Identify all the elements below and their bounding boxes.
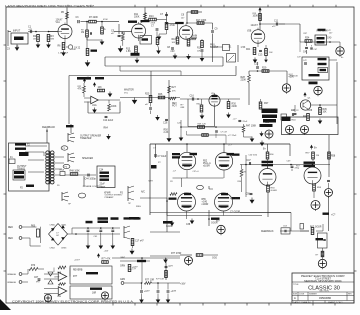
label V4 bbox=[172, 153, 197, 159]
svg-text:C7?: C7? bbox=[169, 266, 174, 268]
fx loop box bbox=[181, 99, 215, 127]
svg-text:C? n47: C? n47 bbox=[221, 132, 228, 134]
plug box P2 bbox=[9, 143, 50, 191]
rca jack bbox=[60, 169, 66, 176]
B+ node C bbox=[282, 71, 294, 94]
EL84 V6 bbox=[178, 193, 196, 211]
cathode chain x87 bbox=[72, 38, 98, 56]
supply blob C bbox=[260, 124, 273, 127]
feedback net label bbox=[42, 126, 56, 143]
supply arrow Q1 bbox=[303, 92, 306, 97]
B+ node G bbox=[217, 225, 225, 235]
+16 label bbox=[180, 284, 186, 286]
reverb fs jack bbox=[124, 226, 130, 239]
resistor R31 bbox=[197, 99, 205, 119]
svg-text:N/C: N/C bbox=[141, 192, 145, 194]
svg-text:ORANGE: ORANGE bbox=[7, 281, 17, 284]
cathode V1B bbox=[139, 36, 152, 45]
wire right col x300 bbox=[299, 24, 301, 42]
heater wire left bbox=[120, 260, 150, 262]
svg-text:1.5K 22uF: 1.5K 22uF bbox=[58, 52, 69, 54]
supply arrow pi bbox=[310, 145, 318, 150]
right chain res bbox=[300, 227, 323, 235]
effects row wire bbox=[120, 97, 180, 99]
title block bbox=[292, 273, 354, 304]
wire V3B feed bbox=[312, 164, 314, 167]
footswitch box S1 bbox=[227, 47, 236, 63]
svg-text:WHT: WHT bbox=[121, 257, 126, 259]
svg-text:SECTION: SECTION bbox=[319, 290, 329, 292]
wire reverb out bbox=[109, 258, 181, 262]
wire to V2A bbox=[186, 22, 212, 24]
bridge rectifier CR60-63 bbox=[49, 224, 68, 250]
ground hc3 bbox=[166, 298, 171, 304]
svg-text:+C? 22uF: +C? 22uF bbox=[230, 198, 241, 200]
cap C40 bbox=[303, 42, 308, 54]
V3A cathode bbox=[267, 185, 277, 217]
resistor R25 bbox=[145, 94, 152, 103]
ground U1A bbox=[108, 92, 113, 98]
scan corner artifact bbox=[0, 299, 11, 310]
wire input row bbox=[28, 31, 62, 33]
resistor R28 220K bbox=[241, 71, 251, 105]
resistor R3 bbox=[47, 31, 54, 42]
svg-text:A: A bbox=[294, 296, 296, 300]
cap C50 bbox=[246, 193, 253, 195]
wire second row bbox=[187, 131, 238, 144]
svg-text:16R: 16R bbox=[92, 293, 97, 295]
arrow into heater bbox=[129, 249, 134, 255]
wire tone run bbox=[166, 23, 180, 25]
svg-text:47K: 47K bbox=[78, 89, 83, 91]
op-amp U1A bbox=[84, 96, 98, 107]
svg-text:FEEDBACK: FEEDBACK bbox=[261, 230, 274, 233]
wire mid reverb bbox=[97, 257, 180, 259]
svg-text:GRN: GRN bbox=[120, 266, 125, 268]
ground hc1 bbox=[139, 298, 144, 304]
B+ node F bbox=[311, 201, 320, 212]
svg-text:RING: RING bbox=[136, 206, 141, 208]
tube V2A bbox=[175, 22, 193, 39]
capacitor C4 pot bbox=[58, 45, 81, 55]
cap C9b bbox=[211, 23, 218, 62]
cap C44 bbox=[85, 174, 97, 181]
verb right parts bbox=[165, 258, 174, 280]
between labels 2 bbox=[202, 199, 209, 206]
svg-text:1M A: 1M A bbox=[192, 37, 197, 40]
wire x142 drop bbox=[141, 257, 143, 283]
svg-text:+15V: +15V bbox=[104, 251, 109, 253]
tube V1A bbox=[56, 19, 73, 39]
svg-text:C50 GG0: C50 GG0 bbox=[249, 155, 258, 157]
ground fb bbox=[92, 108, 97, 114]
resistor R24 100K bbox=[108, 104, 117, 111]
resistor R22 47K bbox=[78, 83, 86, 97]
top revision note bbox=[5, 4, 94, 8]
plate feed R5 bbox=[61, 8, 69, 25]
wire to V1A grid bbox=[49, 31, 59, 33]
ground R25 bbox=[155, 115, 160, 121]
svg-text:LAST REVISION WED 10% 5%/10: LAST REVISION WED 10% 5%/10% CHAS 50 7 bbox=[5, 4, 94, 8]
between labels bbox=[203, 161, 211, 168]
ground input jack bbox=[15, 44, 20, 51]
svg-text:GAIN: GAIN bbox=[192, 35, 198, 38]
fs resistor bbox=[131, 238, 144, 248]
ground R45 bbox=[318, 119, 323, 125]
svg-text:U2A: U2A bbox=[57, 271, 62, 274]
tube V8 reverb driver bbox=[209, 93, 220, 127]
ground heater bbox=[163, 258, 168, 264]
value labels row CD bbox=[153, 145, 301, 223]
svg-text:R17 100K: R17 100K bbox=[196, 20, 207, 22]
svg-text:2.2K: 2.2K bbox=[164, 132, 169, 134]
svg-text:R18: R18 bbox=[197, 48, 202, 50]
svg-text:R7? 47K: R7? 47K bbox=[102, 259, 111, 261]
ground R9 bbox=[87, 38, 104, 46]
boost switch cluster bbox=[210, 45, 230, 51]
svg-text:SHEET 1 OF 1: SHEET 1 OF 1 bbox=[328, 302, 343, 304]
output transformer T1 label bbox=[17, 166, 27, 171]
filter cap 3 bbox=[111, 227, 114, 243]
svg-text:C6?: C6? bbox=[34, 277, 39, 279]
ground tone bbox=[157, 30, 167, 41]
svg-text:GRN: GRN bbox=[120, 279, 125, 281]
svg-text:R70: R70 bbox=[31, 265, 36, 267]
svg-text:R21: R21 bbox=[246, 49, 251, 51]
svg-text:PULL A: PULL A bbox=[203, 162, 211, 165]
supply arrow U2 bbox=[97, 253, 100, 258]
EL84 V7 bbox=[215, 193, 233, 211]
inverter feed bbox=[263, 144, 268, 152]
pot bottom parts bbox=[163, 119, 168, 124]
svg-text:GG0: GG0 bbox=[212, 258, 218, 260]
wire V2B plate row bbox=[260, 23, 285, 25]
ground R30 bbox=[226, 113, 231, 119]
cathode bus wires bbox=[150, 213, 291, 216]
svg-text:DATE 12-MAR-94: DATE 12-MAR-94 bbox=[293, 301, 311, 304]
svg-text:C1? n47: C1? n47 bbox=[135, 241, 144, 243]
B+ node J bbox=[325, 189, 333, 199]
svg-text:CR6?: CR6? bbox=[54, 277, 60, 279]
pilot lamp bbox=[180, 254, 218, 266]
svg-text:1M: 1M bbox=[119, 36, 122, 38]
treble cap C9 bbox=[181, 11, 202, 23]
svg-text:CR60: CR60 bbox=[50, 225, 56, 227]
relay K1 box bbox=[315, 35, 332, 45]
cap C14 22uF bbox=[103, 100, 114, 122]
svg-text:470K: 470K bbox=[170, 25, 176, 27]
right labels bbox=[230, 198, 241, 214]
svg-text:10K: 10K bbox=[98, 87, 103, 89]
svg-text:R49 2.2K: R49 2.2K bbox=[198, 124, 207, 126]
svg-text:PULL: PULL bbox=[210, 45, 217, 47]
svg-text:GG0R: GG0R bbox=[271, 190, 278, 192]
label V6 bbox=[169, 193, 192, 200]
svg-text:1M: 1M bbox=[33, 39, 36, 41]
label V5 bbox=[227, 153, 240, 156]
svg-text:C50: C50 bbox=[246, 194, 251, 196]
phase sup resistor R37 bbox=[259, 99, 269, 109]
svg-text:C? 10uF: C? 10uF bbox=[158, 156, 167, 158]
reverb pot bbox=[168, 97, 177, 107]
svg-text:+C7?: +C7? bbox=[144, 291, 150, 293]
wire C3 to R7 bbox=[81, 21, 89, 23]
svg-text:03503080: 03503080 bbox=[319, 296, 331, 300]
svg-text:+C?: +C? bbox=[331, 215, 336, 217]
resistor R19 100K bbox=[253, 14, 262, 21]
footswitch jack 2 bbox=[120, 186, 145, 201]
cap C12 bbox=[254, 62, 259, 68]
B+ node E bbox=[314, 86, 322, 96]
svg-text:100K: 100K bbox=[111, 106, 117, 108]
ground R6 bbox=[61, 51, 66, 57]
resistor R7 bbox=[89, 17, 99, 23]
V2B cathode extra bbox=[264, 45, 273, 62]
svg-text:100K: 100K bbox=[253, 16, 259, 18]
resistor R72 10R bbox=[141, 280, 180, 285]
grid stopper R8 bbox=[86, 22, 88, 30]
cap labels row bbox=[86, 217, 119, 238]
svg-text:V2B: V2B bbox=[247, 31, 252, 33]
diodes CR60 bbox=[48, 272, 60, 284]
ground pi bbox=[249, 198, 254, 204]
capacitor C8 n33 bbox=[167, 47, 175, 53]
svg-text:+15V?: +15V? bbox=[74, 260, 81, 262]
filter cap 1 bbox=[87, 227, 90, 243]
cap C31 bbox=[292, 105, 300, 115]
gain pot bbox=[187, 35, 197, 47]
resistor R60 bbox=[31, 226, 41, 244]
master label bbox=[124, 89, 134, 92]
fb zig U2A bbox=[54, 266, 70, 277]
ground label blob bbox=[163, 221, 173, 224]
ground V2B bbox=[241, 47, 258, 63]
svg-text:R47 100K: R47 100K bbox=[246, 126, 257, 128]
wire fx right bbox=[180, 98, 240, 100]
c24 chain bbox=[177, 120, 183, 141]
wire x151 drop bbox=[150, 71, 152, 96]
ground cath 2 bbox=[186, 219, 194, 227]
svg-text:+16V: +16V bbox=[180, 284, 186, 286]
ground R3 bbox=[46, 43, 51, 49]
supply box 120V bbox=[281, 110, 296, 120]
label 12AX7 bbox=[251, 23, 261, 27]
reverb box 2 bbox=[70, 286, 112, 299]
svg-text:+C7?: +C7? bbox=[171, 291, 177, 293]
svg-text:REVERB: REVERB bbox=[73, 270, 83, 272]
svg-text:R16: R16 bbox=[172, 39, 177, 41]
svg-text:GG0R: GG0R bbox=[240, 172, 246, 174]
ground sup bbox=[259, 132, 263, 137]
cap C15 bbox=[149, 103, 152, 114]
inner vertical bbox=[149, 151, 168, 216]
svg-text:R64: R64 bbox=[104, 128, 109, 130]
svg-text:CR61: CR61 bbox=[61, 225, 67, 227]
svg-text:R60: R60 bbox=[31, 226, 36, 228]
heater cap 2 bbox=[157, 282, 160, 297]
wire plate row1 bbox=[67, 21, 77, 23]
svg-text:C38: C38 bbox=[186, 224, 191, 226]
svg-text:n100R: n100R bbox=[202, 204, 209, 206]
ground f1 bbox=[86, 244, 91, 250]
ground V1B cathode bbox=[126, 46, 140, 63]
svg-text:R12: R12 bbox=[121, 33, 126, 35]
copyright note bbox=[12, 300, 134, 304]
corner wire bbox=[209, 186, 213, 189]
resistor R26 bbox=[158, 94, 165, 99]
resistor R57 bbox=[306, 152, 320, 161]
resistor R14 bbox=[145, 15, 167, 21]
svg-text:CR63: CR63 bbox=[61, 248, 67, 250]
EL84 V5 bbox=[215, 153, 232, 170]
svg-text:12AX7: 12AX7 bbox=[56, 19, 64, 22]
capacitor C3 bbox=[76, 17, 80, 23]
wire Q1 row bbox=[311, 104, 338, 106]
EL84 V4 bbox=[178, 152, 195, 169]
footswitch labels extra bbox=[68, 203, 141, 208]
fuse F1 bbox=[9, 157, 15, 164]
svg-text:GG0R: GG0R bbox=[211, 223, 218, 225]
svg-text:RED: RED bbox=[8, 238, 13, 240]
wire below tank bbox=[83, 176, 85, 186]
svg-text:R27: R27 bbox=[172, 87, 177, 89]
svg-text:C12: C12 bbox=[254, 64, 259, 66]
resistor R15 470K bbox=[165, 23, 175, 30]
supply blob cluster bbox=[262, 109, 278, 125]
feedback box U1 bbox=[88, 100, 120, 113]
resistor R10 bbox=[101, 21, 106, 34]
svg-text:470K: 470K bbox=[103, 19, 108, 21]
left small box bbox=[300, 224, 304, 230]
B+ node B bbox=[265, 130, 273, 140]
speaker jack J3 bbox=[68, 153, 93, 162]
node x166 top bbox=[160, 12, 168, 23]
arrow R47 bbox=[244, 137, 255, 143]
svg-text:C47: C47 bbox=[247, 160, 252, 162]
output section box bbox=[150, 144, 290, 215]
svg-text:MERIDIAN, MISSISSIPPI 39301: MERIDIAN, MISSISSIPPI 39301 bbox=[304, 279, 342, 283]
supply arrow U1B bbox=[93, 82, 96, 87]
grid bus row1 bbox=[173, 170, 247, 187]
transistor Q1 bbox=[300, 100, 313, 112]
P5 ellipse bbox=[197, 185, 204, 189]
grn cluster bbox=[120, 265, 138, 272]
reverb tank box bbox=[97, 166, 115, 188]
svg-text:CODE: CODE bbox=[299, 294, 305, 296]
value labels row A bbox=[29, 13, 294, 76]
svg-text:R7? 470R: R7? 470R bbox=[171, 253, 182, 255]
resistor R12 bbox=[118, 32, 126, 53]
svg-text:R58: R58 bbox=[331, 156, 336, 158]
svg-text:R14: R14 bbox=[149, 15, 154, 18]
ground arrow effects bbox=[132, 98, 138, 105]
resistor R70 bbox=[28, 265, 44, 274]
r58 label bbox=[327, 135, 336, 188]
tube V2B bbox=[247, 28, 265, 44]
svg-text:R29: R29 bbox=[262, 68, 267, 70]
svg-text:C40: C40 bbox=[327, 38, 332, 40]
ground r50 bbox=[166, 136, 171, 142]
bias blob bbox=[151, 165, 157, 169]
op-amp U2B bbox=[44, 287, 67, 298]
svg-text:C13: C13 bbox=[258, 55, 263, 57]
svg-text:R48 100K: R48 100K bbox=[70, 171, 81, 173]
cathode network V1A bbox=[64, 39, 66, 44]
svg-text:C16: C16 bbox=[190, 96, 195, 98]
resistor R30 bbox=[227, 99, 237, 109]
wire reverb row bbox=[300, 41, 337, 43]
svg-text:TWEETER: TWEETER bbox=[80, 138, 92, 140]
cath drop V7 bbox=[208, 210, 210, 226]
plate feed V2B bbox=[258, 7, 261, 30]
speaker jack J2 bbox=[68, 133, 101, 142]
svg-text:INPUT: INPUT bbox=[13, 30, 21, 33]
ground V2A bbox=[186, 54, 191, 60]
svg-text:R26: R26 bbox=[158, 94, 163, 96]
tube cathode drops bbox=[187, 170, 225, 219]
fs route bbox=[166, 200, 168, 232]
heater cap 1 bbox=[140, 283, 150, 298]
svg-text:CR62: CR62 bbox=[50, 248, 56, 250]
wire send bus bbox=[249, 70, 287, 72]
svg-text:R7? 10R: R7? 10R bbox=[156, 279, 164, 281]
B+ node H bbox=[101, 292, 108, 301]
screen chain resistor bbox=[316, 248, 324, 259]
ground hc2 bbox=[156, 298, 161, 304]
filter label extra bbox=[124, 217, 141, 219]
left pi parts bbox=[240, 155, 247, 197]
heater wire right bbox=[150, 253, 182, 256]
svg-text:10K: 10K bbox=[323, 112, 328, 114]
svg-text:ORANGE: ORANGE bbox=[7, 273, 17, 276]
resistor R44 bbox=[303, 114, 309, 121]
chain x157 bbox=[151, 26, 161, 55]
svg-text:n100R: n100R bbox=[203, 166, 210, 168]
wire S1 up bbox=[237, 45, 239, 62]
svg-text:SPEAKER: SPEAKER bbox=[82, 157, 93, 160]
resistor R17 100K bbox=[196, 20, 207, 25]
transformer secondary stubs bbox=[15, 148, 64, 176]
svg-text:MASTER: MASTER bbox=[124, 89, 134, 92]
lamp DS1 bbox=[318, 259, 326, 269]
svg-text:REVERB: REVERB bbox=[83, 186, 92, 188]
dark label R6x bbox=[211, 218, 220, 225]
pi dark label bbox=[304, 162, 316, 168]
svg-text:C11: C11 bbox=[274, 21, 279, 23]
power transformer label bbox=[15, 143, 30, 147]
svg-text:R7? 10R: R7? 10R bbox=[145, 280, 154, 282]
resistor R34 bbox=[305, 38, 312, 43]
svg-text:C44 1000p: C44 1000p bbox=[85, 179, 97, 181]
svg-text:220K: 220K bbox=[241, 80, 247, 82]
resistor R48 bbox=[70, 171, 81, 176]
transformer wires bbox=[25, 146, 47, 180]
value labels row E bbox=[74, 251, 164, 281]
svg-text:BOOST: BOOST bbox=[210, 47, 219, 49]
svg-text:C? GG0R: C? GG0R bbox=[230, 212, 240, 214]
resistor R71 bbox=[102, 259, 111, 264]
svg-text:C30: C30 bbox=[265, 122, 270, 124]
blob top right channel bbox=[308, 98, 312, 100]
svg-text:R37: R37 bbox=[264, 103, 269, 105]
resistor R6 1.5K bbox=[58, 43, 65, 50]
svg-text:PREAMP: PREAMP bbox=[105, 196, 114, 199]
reverb box 1 bbox=[70, 266, 112, 284]
red lead 1 bbox=[8, 226, 37, 229]
svg-text:C14 22uF: C14 22uF bbox=[103, 120, 114, 122]
svg-text:TITLE: TITLE bbox=[293, 284, 299, 286]
svg-text:FOOTSW: FOOTSW bbox=[93, 186, 102, 188]
